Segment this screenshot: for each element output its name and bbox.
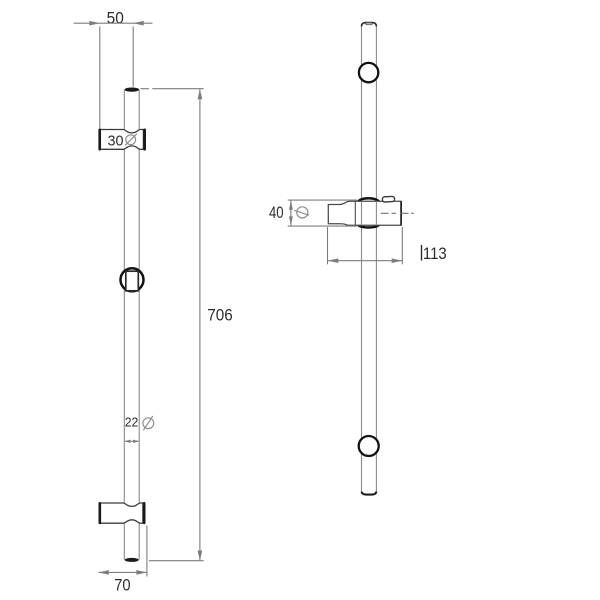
tube lines through holder — [362, 201, 377, 225]
holder top collar arc — [358, 198, 380, 201]
diameter symbol for 22 — [143, 416, 154, 430]
holder bottom collar arc — [358, 225, 380, 228]
right tube bottom cap — [362, 492, 377, 495]
handset holder body — [328, 201, 401, 225]
svg-text:30: 30 — [108, 133, 124, 150]
holder cup rim line — [354, 201, 356, 225]
right tube top cap inner ellipse — [365, 23, 372, 25]
holder center dash-dot line — [381, 212, 414, 214]
svg-text:50: 50 — [107, 9, 124, 28]
dimension 40 extension lines — [288, 200, 357, 226]
bottom bracket right end cap — [143, 502, 146, 524]
svg-text:70: 70 — [114, 576, 130, 595]
dimension 50 extension lines — [100, 27, 133, 129]
113 text tick — [421, 245, 423, 261]
svg-text:706: 706 — [207, 306, 233, 325]
left tube (rail) upper segment — [124, 90, 139, 132]
bottom knob circle — [359, 436, 379, 456]
dimension 40 line with arrows — [289, 200, 293, 226]
top bracket right end cap — [143, 129, 146, 151]
top knob circle — [359, 63, 378, 82]
dimension 70 line — [98, 570, 147, 575]
dimension 706 vertical line with arrows — [198, 89, 203, 561]
slider ring — [121, 268, 144, 291]
svg-text:113: 113 — [423, 244, 447, 263]
left tube bottom cap — [125, 558, 139, 562]
dimension 113 line with arrows — [328, 258, 402, 263]
right tube top cap — [362, 23, 377, 27]
dimension 70 right extension line — [146, 526, 148, 577]
bottom wall bracket body — [100, 503, 142, 523]
left tube lower segment — [124, 520, 139, 559]
diameter symbol for 30 — [125, 134, 137, 146]
right tube — [362, 24, 377, 493]
left tube top cap — [124, 88, 139, 92]
dimension 113 extension lines — [328, 227, 403, 264]
bottom bracket left end cap — [99, 502, 102, 524]
dimension 50 line — [74, 21, 153, 26]
svg-text:40: 40 — [269, 203, 284, 222]
diameter symbol for 40 — [294, 207, 309, 218]
left tube mid segment — [124, 146, 139, 506]
svg-text:22: 22 — [125, 415, 139, 430]
dimension 706 top extension line — [141, 88, 204, 90]
holder top tab — [382, 196, 394, 202]
dimension 22 arrows — [124, 440, 139, 443]
top wall bracket body — [100, 130, 143, 150]
dimension 706 bottom extension line — [149, 560, 204, 562]
slider button rect — [126, 271, 139, 291]
holder right end edge — [400, 201, 402, 225]
top bracket left end cap — [98, 129, 101, 151]
